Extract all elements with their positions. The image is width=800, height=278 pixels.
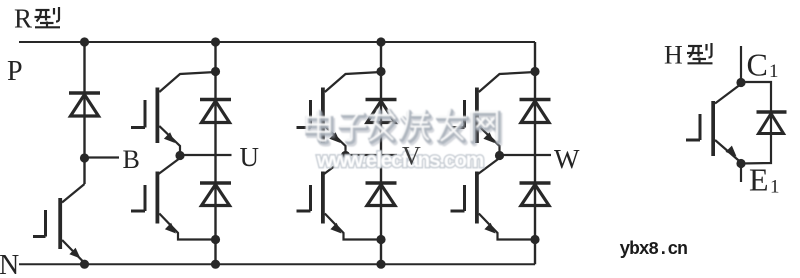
svg-text:1: 1 — [769, 61, 779, 82]
svg-text:ybx8.cn: ybx8.cn — [620, 240, 688, 260]
svg-text:B: B — [123, 145, 140, 174]
svg-text:1: 1 — [770, 177, 780, 198]
svg-text:V: V — [402, 142, 421, 171]
svg-text:R: R — [14, 4, 32, 34]
svg-text:W: W — [554, 144, 580, 174]
svg-text:U: U — [240, 142, 260, 172]
svg-text:P: P — [7, 56, 23, 87]
svg-text:www.elecfans.com: www.elecfans.com — [316, 149, 484, 172]
svg-text:H: H — [664, 41, 683, 70]
svg-text:E: E — [749, 162, 769, 198]
svg-text:C: C — [747, 47, 768, 83]
svg-text:N: N — [0, 250, 19, 278]
